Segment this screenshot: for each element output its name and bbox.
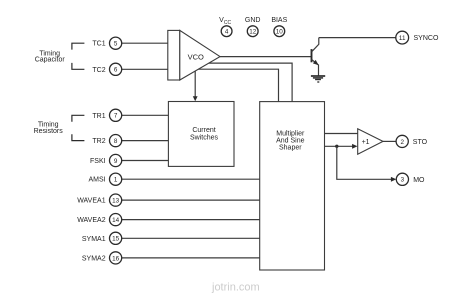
pin 10 (BIAS) — [271, 17, 287, 36]
label Timing Resistors — [34, 122, 64, 135]
wire AMSI to multiplier — [122, 178, 260, 180]
svg-text:TC1: TC1 — [92, 41, 105, 48]
svg-text:14: 14 — [112, 217, 120, 224]
pin 6 (TC2) — [92, 63, 121, 75]
svg-text:STO: STO — [413, 139, 428, 146]
svg-text:SYMA2: SYMA2 — [82, 255, 106, 262]
pin 11 (SYNCO) — [396, 31, 439, 44]
pin 12 (GND) — [245, 17, 261, 36]
wire buffer output to STO — [383, 140, 396, 142]
wire junction to MO — [337, 146, 397, 181]
svg-text:Switches: Switches — [190, 134, 219, 141]
pin 16 (SYMA2) — [82, 252, 122, 264]
svg-text:+1: +1 — [362, 139, 370, 146]
svg-text:2: 2 — [400, 139, 404, 146]
buffer +1 — [358, 129, 383, 154]
VCO block — [168, 30, 220, 80]
svg-text:Resistors: Resistors — [34, 128, 64, 135]
svg-text:CC: CC — [224, 20, 232, 26]
svg-text:SYMA1: SYMA1 — [82, 236, 106, 243]
svg-text:And Sine: And Sine — [276, 138, 305, 145]
wire TR2 to current switches — [122, 140, 169, 142]
junction dot — [335, 145, 338, 148]
multiplier and sine shaper box — [260, 102, 325, 270]
transistor Q1 — [312, 38, 319, 76]
wire SYMA2 to multiplier — [122, 257, 260, 259]
pin 7 (TR1) — [92, 109, 121, 121]
wire VCO output to multiplier top 2 — [198, 69, 278, 101]
wire VCO output to multiplier top 1 — [209, 63, 292, 102]
wire multiplier to buffer input 2 — [325, 144, 358, 149]
svg-text:Shaper: Shaper — [279, 145, 302, 152]
bracket timing resistors — [72, 115, 85, 140]
wire multiplier to buffer input 1 — [325, 133, 358, 135]
svg-text:1: 1 — [114, 177, 118, 184]
svg-text:6: 6 — [114, 67, 118, 74]
wire TR1 to current switches — [122, 114, 169, 116]
svg-text:TR1: TR1 — [92, 113, 105, 120]
pin 13 (WAVEA1) — [77, 194, 122, 206]
svg-text:8: 8 — [114, 138, 118, 145]
svg-text:7: 7 — [114, 113, 118, 120]
svg-text:VCO: VCO — [188, 53, 204, 62]
wire TC1 to VCO — [122, 42, 169, 44]
ground — [311, 76, 325, 82]
pin 1 (AMSI) — [88, 173, 121, 185]
svg-text:WAVEA1: WAVEA1 — [77, 198, 106, 205]
svg-text:Current: Current — [192, 127, 215, 134]
pin 3 (MO) — [396, 173, 425, 185]
svg-text:5: 5 — [114, 41, 118, 48]
svg-text:MO: MO — [413, 177, 425, 184]
svg-text:13: 13 — [112, 198, 120, 205]
svg-text:10: 10 — [276, 29, 284, 36]
wire SYMA1 to multiplier — [122, 237, 260, 239]
pin 14 (WAVEA2) — [77, 214, 122, 226]
svg-text:TR2: TR2 — [92, 138, 105, 145]
pin 2 (STO) — [396, 135, 428, 147]
current switches box — [168, 102, 234, 167]
wire WAVEA1 to multiplier — [122, 199, 260, 201]
svg-text:jotrin.com: jotrin.com — [211, 282, 260, 294]
svg-text:4: 4 — [225, 29, 229, 36]
svg-text:BIAS: BIAS — [271, 17, 287, 24]
wire VCO to current switches — [193, 71, 198, 101]
svg-text:TC2: TC2 — [92, 67, 105, 74]
svg-text:Capacitor: Capacitor — [35, 57, 66, 64]
wire WAVEA2 to multiplier — [122, 219, 260, 221]
pin 8 (TR2) — [92, 135, 121, 147]
svg-text:FSKI: FSKI — [90, 158, 106, 165]
bracket timing capacitor — [72, 43, 85, 69]
wire FSKI to current switches — [122, 160, 169, 162]
svg-text:SYNCO: SYNCO — [414, 35, 439, 42]
svg-text:16: 16 — [112, 255, 120, 262]
pin 4 (VCC) — [219, 17, 232, 36]
svg-text:Multiplier: Multiplier — [276, 131, 305, 138]
wire collector to SYNCO — [319, 37, 396, 39]
pin 9 (FSKI) — [90, 154, 122, 166]
svg-text:15: 15 — [112, 236, 120, 243]
label Timing Capacitor — [35, 50, 66, 63]
svg-text:GND: GND — [245, 17, 261, 24]
pin 5 (TC1) — [92, 37, 121, 49]
wire TC2 to VCO — [122, 68, 169, 70]
svg-text:WAVEA2: WAVEA2 — [77, 217, 106, 224]
svg-text:9: 9 — [114, 158, 118, 165]
svg-text:AMSI: AMSI — [88, 177, 105, 184]
svg-text:3: 3 — [401, 177, 405, 184]
pin 15 (SYMA1) — [82, 232, 122, 244]
svg-text:12: 12 — [249, 29, 257, 36]
wire VCO output to transistor base — [220, 56, 311, 58]
svg-text:11: 11 — [399, 35, 406, 42]
